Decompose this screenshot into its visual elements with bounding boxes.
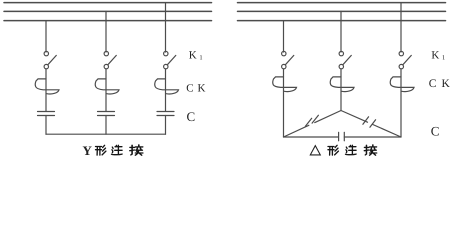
wire: delta right slant (apex to bottom-right) [341, 111, 401, 138]
glyph 连 [346, 145, 357, 154]
bus bar R2 (right diagram, middle phase) [238, 10, 446, 12]
reactor CK left leg 2 [95, 79, 119, 94]
capacitor on delta right slant [363, 117, 376, 127]
caption: 三角 形连接 [310, 145, 376, 155]
capacitor C left leg 1 [38, 112, 55, 116]
reactor CK right leg 2 [330, 77, 354, 92]
switch K1 left leg 3 [164, 51, 176, 68]
bus bar R1 (right diagram, top phase) [238, 2, 446, 4]
wire: left leg 2 drop from bus L2 [105, 11, 107, 52]
glyph 接 [130, 145, 143, 155]
switch K1 right leg 1 [282, 51, 294, 68]
triangle symbol [310, 146, 320, 155]
reactor CK left leg 1 [35, 79, 59, 94]
wire: right leg 2 drop from bus R2 [340, 11, 342, 52]
caption: Y 形连接 [83, 143, 143, 158]
wire: right leg 3 drop from bus R1 [400, 3, 402, 52]
svg-text:CK: CK [186, 83, 209, 95]
capacitor C left leg 2 [98, 112, 115, 116]
reactor CK right leg 3 [390, 77, 414, 92]
wire: left leg 2 mid [105, 69, 107, 111]
svg-text:K1: K1 [189, 50, 203, 62]
svg-text:K1: K1 [431, 50, 445, 62]
wire: delta left slant (apex to bottom-left) [284, 111, 342, 138]
glyph 接 [364, 145, 376, 155]
wire: star-point rail of Y connection [46, 133, 166, 135]
bus bar L2 (left diagram, middle phase) [4, 10, 212, 12]
wire: delta bottom side [284, 136, 402, 138]
switch K1 right leg 3 [399, 51, 411, 68]
reactor CK left leg 3 [155, 79, 179, 94]
wire: left leg 2 bottom [105, 116, 107, 135]
svg-text:C: C [431, 124, 440, 139]
wire: left leg 1 bottom [45, 116, 47, 135]
bus bar R3 (right diagram, bottom phase) [238, 20, 446, 22]
svg-text:CK: CK [429, 78, 455, 90]
svg-text:C: C [187, 109, 196, 124]
capacitor C left leg 3 [157, 112, 174, 116]
glyph 形 [328, 145, 338, 155]
wire: left leg 1 mid [45, 69, 47, 111]
switch K1 right leg 2 [339, 51, 351, 68]
bus bar L1 (left diagram, top phase) [4, 2, 212, 4]
wire: left leg 3 bottom [165, 116, 167, 135]
capacitor on delta left slant [305, 115, 318, 126]
wire: right leg 1 to delta corner [283, 69, 285, 137]
wire: left leg 3 mid [165, 69, 167, 111]
wire: right leg 2 to delta apex [340, 69, 342, 111]
svg-text:Y: Y [83, 143, 93, 158]
wire: left leg 1 drop from bus L3 [45, 21, 47, 52]
capacitor on delta bottom side [339, 132, 345, 141]
switch K1 left leg 1 [44, 51, 56, 68]
glyph 形 [96, 145, 106, 155]
switch K1 left leg 2 [104, 51, 116, 68]
reactor CK right leg 1 [273, 77, 297, 92]
bus bar L3 (left diagram, bottom phase) [4, 20, 212, 22]
wire: right leg 1 drop from bus R3 [283, 21, 285, 52]
wire: left leg 3 drop from bus L1 [165, 3, 167, 52]
wire: right leg 3 to delta corner [400, 69, 402, 137]
glyph 连 [112, 145, 123, 154]
